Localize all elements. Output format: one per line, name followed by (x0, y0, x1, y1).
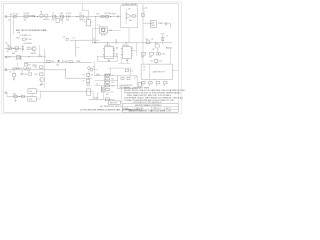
label gate (166, 36, 168, 38)
svg-text:LA1 6V: LA1 6V (43, 18, 49, 21)
wire q4 drop (156, 48, 158, 52)
resistor R13 (104, 13, 111, 18)
label IC2 pin nums (121, 48, 133, 56)
resistor R16 (162, 35, 164, 44)
wire k2 right b (36, 98, 40, 100)
label bottom note (100, 105, 122, 108)
svg-text:R7: R7 (28, 65, 30, 67)
resistor R1 (24, 13, 30, 18)
svg-text:K1: K1 (98, 25, 100, 27)
label 115VAC (28, 14, 36, 17)
svg-text:MOTOR: MOTOR (110, 103, 117, 105)
IC U4 pin 8 (131, 47, 133, 49)
transistor T3 bars (101, 87, 103, 92)
svg-text:DWG 12-4: DWG 12-4 (153, 108, 161, 110)
title block cell c (153, 108, 161, 110)
wire box stub (172, 70, 178, 72)
wire reg drop (128, 28, 130, 43)
svg-text:REV 2: REV 2 (166, 108, 171, 110)
svg-text:R8: R8 (28, 71, 30, 73)
wire long lower (5, 69, 66, 71)
svg-text:J5: J5 (156, 85, 158, 87)
resistor R18 (149, 52, 153, 58)
switch S1 (11, 14, 13, 17)
title block vdiv 2 (151, 107, 153, 112)
wire relay feed (93, 28, 100, 30)
resistor stack Rc (106, 81, 110, 83)
wire AC line top (7, 16, 121, 18)
wire IC2 out (133, 43, 137, 56)
diode D13 (134, 77, 137, 80)
svg-text:K2a: K2a (29, 91, 32, 93)
label box pins (143, 66, 145, 71)
wire relay drop (95, 29, 97, 43)
node n16 (125, 42, 126, 43)
border outer frame (1, 2, 181, 114)
svg-text:P1 10K: P1 10K (62, 61, 68, 63)
node n5 (110, 16, 111, 17)
node n9 (28, 56, 29, 57)
svg-text:C6: C6 (82, 75, 84, 77)
label D10 value (92, 39, 95, 41)
diode D12 (125, 69, 133, 72)
wire bl (7, 96, 28, 98)
IC U3 pin 4 (103, 51, 105, 53)
subcircuit box U2 regulator (121, 6, 137, 28)
title block cell d (166, 108, 171, 110)
wire rail tick (143, 11, 145, 13)
wire bus row2 (95, 80, 118, 82)
label P1 wiper (56, 64, 60, 66)
label wdg1 (17, 33, 20, 35)
resistor R19 (142, 81, 146, 87)
label wdg2 (20, 35, 31, 37)
wire drop s1 (17, 63, 19, 67)
node n1 (34, 16, 35, 17)
svg-text:REF: REF (12, 53, 15, 55)
wire drop left A (10, 17, 12, 49)
IC U4 pin 1 (131, 55, 133, 57)
svg-text:T1: T1 (52, 13, 54, 15)
label TO PIN3 (12, 68, 32, 70)
regulator U1 (86, 10, 91, 26)
rectifier D1 (66, 13, 71, 18)
label above titleblock (132, 101, 162, 104)
svg-text:220: 220 (16, 59, 19, 61)
svg-text:C5: C5 (73, 38, 75, 40)
wire IC2 vcc (125, 43, 127, 47)
title block frame (122, 103, 178, 112)
resistor R17 (141, 52, 145, 58)
capacitor C8 (33, 64, 37, 67)
node n6 (13, 48, 14, 49)
title block divider 1 (122, 106, 178, 108)
IC U4 pin 4 (121, 51, 123, 53)
IC U3 pin 3 (113, 50, 115, 52)
label R15 value (151, 39, 154, 41)
wire mid horizontal (70, 39, 99, 41)
wire lower aux (5, 56, 46, 58)
svg-text:D11: D11 (162, 54, 165, 56)
wire bc motor (113, 99, 115, 101)
svg-text:IC2 555: IC2 555 (123, 45, 129, 47)
lamp L1 (43, 14, 49, 21)
label C6 value (91, 75, 94, 77)
node n14 (95, 42, 96, 43)
title block divider 2 (122, 108, 178, 110)
note line 2 (124, 89, 186, 92)
label cluster c (96, 84, 98, 86)
wire y68 drop (109, 68, 111, 74)
label cluster a (96, 74, 99, 76)
resistor R29 (105, 98, 110, 101)
label +9V (128, 9, 132, 11)
svg-text:J6: J6 (163, 85, 165, 87)
note line 3 (124, 92, 182, 95)
wire k2 right a (36, 90, 40, 92)
label SEE TEXT FOR DETAILS (16, 29, 47, 32)
relay K2 contact b (28, 97, 36, 101)
IC U3 pin 5 (113, 52, 115, 54)
wire bus vertical (104, 74, 106, 92)
svg-text:D10: D10 (92, 39, 95, 41)
label below R1 (24, 19, 27, 22)
svg-text:R2 10K: R2 10K (26, 39, 33, 41)
svg-text:ALL RESISTORS 1/4W 5%: ALL RESISTORS 1/4W 5% (100, 105, 122, 108)
diode D7 (141, 14, 144, 17)
transformer T1 secondary (60, 13, 64, 18)
wire drop n13 (65, 70, 67, 78)
ground GND1 (20, 57, 22, 61)
svg-text:8 TURNS #24: 8 TURNS #24 (20, 35, 31, 37)
wire bus row1 (95, 75, 118, 77)
note line 4 (127, 94, 172, 97)
svg-text:OUT+: OUT+ (158, 23, 164, 25)
wire IC1 vcc (107, 42, 108, 46)
wire drop n4 (95, 17, 97, 29)
note line 6 (124, 99, 175, 102)
fuse F1 (13, 12, 18, 17)
transistor Q4 (155, 43, 159, 48)
transistor Q1 (32, 47, 36, 51)
wire bc left box (87, 89, 91, 95)
connector left col (139, 82, 141, 86)
capacitor C11 (115, 40, 117, 43)
resistor stack Rb (106, 78, 110, 80)
node n12 (25, 69, 26, 70)
svg-text:C7: C7 (82, 81, 84, 83)
svg-text:2N3904: 2N3904 (30, 53, 36, 55)
wire bus row3 (95, 85, 118, 87)
ground GND2 (13, 76, 15, 80)
node plus mark (43, 30, 45, 32)
node n10 (58, 60, 60, 62)
resistor R3 (7, 45, 11, 50)
IC U4 pin 5 (131, 52, 133, 54)
resistor stack Rd (106, 85, 110, 87)
label below D1 (66, 20, 69, 22)
wire relay to box (107, 29, 120, 31)
node J1 AC input + (5, 16, 7, 18)
resistor R23 (156, 81, 160, 87)
svg-text:C9: C9 (9, 72, 11, 74)
box output stage (97, 56, 117, 61)
label 6V REGULATED SUPPLY (122, 4, 138, 6)
node n13 (65, 69, 66, 70)
label ADJ (129, 19, 132, 22)
sensor circle (88, 67, 91, 71)
wire bc bottom link (101, 91, 114, 93)
subcircuit motor box (141, 64, 172, 79)
svg-text:R17: R17 (141, 56, 144, 58)
svg-text:IN: IN (84, 21, 86, 23)
diode D10 (93, 41, 95, 43)
label R3 value (7, 51, 10, 53)
IC U4 pin 6 (121, 54, 123, 56)
wire k2 link (31, 93, 33, 97)
transistor Q2 lower (87, 83, 90, 86)
label Q1 type (30, 53, 36, 55)
svg-text:R9: R9 (35, 67, 37, 69)
svg-text:ADJ: ADJ (129, 19, 132, 22)
svg-text:R12: R12 (96, 14, 99, 16)
IC U3 555 timer (105, 45, 114, 59)
capacitor C12 (116, 48, 118, 49)
label R4 value (15, 51, 19, 53)
svg-text:12 VDC MOTOR SPEED CONTROLLER: 12 VDC MOTOR SPEED CONTROLLER - SCHEMATI… (80, 109, 143, 112)
label C9 value (9, 72, 11, 74)
wire right rail (142, 23, 144, 64)
label R12 (96, 14, 99, 16)
svg-text:S1: S1 (8, 20, 10, 22)
svg-text:R10: R10 (35, 74, 38, 76)
LED D11 (156, 52, 161, 55)
svg-text:SEE TEXT FOR WINDING DATA: SEE TEXT FOR WINDING DATA (16, 29, 47, 32)
wire vcc rail (92, 42, 172, 44)
label stack 4 (111, 86, 114, 88)
IC U4 pin 2 (121, 48, 123, 50)
LED D5 (100, 15, 104, 17)
label motor box (152, 70, 165, 73)
svg-text:TIP: TIP (152, 49, 154, 51)
wire y75 link (95, 74, 101, 76)
wire +V rail right (142, 5, 144, 24)
wire y68 link (109, 67, 132, 69)
node n18 (19, 96, 20, 97)
wire drop x94 (94, 61, 96, 75)
wire right column (44, 63, 46, 89)
label R6 value (16, 59, 19, 61)
resistor R20 (47, 60, 54, 63)
label C5 (73, 38, 75, 40)
border inner frame (4, 3, 179, 112)
wire ic1 drop (120, 59, 122, 64)
capacitor C3 (166, 22, 167, 25)
wire aux line (5, 47, 21, 49)
connector CN1 (150, 21, 156, 28)
resistor R26 (21, 95, 24, 98)
svg-text:BR1: BR1 (66, 20, 69, 22)
label Q4 type (152, 49, 154, 51)
node n7 (9, 56, 10, 57)
svg-text:TRIM: TRIM (76, 61, 81, 63)
note line 5 (124, 97, 184, 100)
resistor R21 (69, 61, 72, 63)
label relay coil (109, 30, 113, 32)
schematic title (80, 109, 143, 112)
svg-text:K2b: K2b (29, 99, 32, 101)
node n8 (20, 56, 21, 57)
label D6 (143, 8, 147, 10)
IC U4 555 timer (123, 45, 132, 59)
svg-text:U1: U1 (86, 18, 88, 20)
svg-text:R3: R3 (7, 45, 9, 47)
IC U3 pin 1 (113, 55, 115, 57)
IC U3 pin 6 (103, 54, 105, 56)
label trim (76, 61, 81, 63)
label below C1 (80, 20, 85, 22)
label 10K pot (62, 61, 68, 63)
transistor Q3 (40, 78, 44, 82)
resistor R6 (17, 56, 20, 59)
capacitor C9 (12, 70, 15, 76)
wire drop xfmr2 (61, 17, 63, 24)
resistor R5 (27, 47, 30, 49)
svg-text:R15: R15 (145, 39, 148, 41)
big box pwm (118, 76, 138, 89)
node n15 (116, 42, 117, 43)
label cluster b (105, 74, 111, 76)
wire drop mid (44, 49, 46, 63)
label D11 (162, 54, 165, 56)
capacitor C14 (155, 59, 162, 62)
resistor R22 (149, 81, 153, 87)
node n17 (155, 42, 156, 43)
IC U4 pin 3 (131, 50, 133, 52)
wire drop left B (12, 17, 14, 35)
wire mid vertical (75, 40, 77, 56)
wire k2 vert (39, 91, 41, 99)
resistor R7 (24, 63, 30, 66)
capacitor C10 (21, 70, 28, 76)
label C14 value (150, 60, 153, 62)
wire to output (143, 22, 152, 24)
svg-text:C1: C1 (79, 13, 81, 15)
resistor R33 (121, 77, 124, 79)
resistor R25 (13, 93, 17, 97)
svg-text:4 AMP MOTOR: 4 AMP MOTOR (152, 70, 165, 73)
wire drop q3 (41, 82, 43, 85)
motor box divider (149, 64, 151, 79)
ground GND4 (126, 59, 128, 61)
wire bc drop3 (103, 92, 105, 99)
title block name (135, 105, 162, 107)
wire bc drop2 (97, 92, 99, 99)
meter M1 (40, 12, 43, 18)
svg-text:10K: 10K (111, 86, 114, 88)
svg-text:C14: C14 (159, 60, 162, 62)
op-amp U2 (126, 13, 131, 18)
wire long bottom (40, 90, 92, 92)
wire mid lower (24, 62, 92, 64)
resistor R8 (29, 73, 32, 75)
wire reg internal rail (125, 8, 127, 24)
relay K2 contact a (28, 89, 36, 93)
wire mid bottom (66, 77, 93, 79)
label pwm box b (120, 87, 130, 89)
svg-text:R18: R18 (149, 56, 152, 58)
wire y63 link (119, 62, 131, 64)
resistor R24 (163, 81, 167, 87)
svg-text:R31 R32: R31 R32 (105, 74, 111, 76)
title block cell b (136, 108, 144, 110)
wire top feed (82, 4, 88, 11)
resistor R35 (95, 97, 97, 99)
svg-text:BUZ11: BUZ11 (166, 48, 172, 50)
wire j8 stub (93, 66, 98, 69)
resistor R14 (133, 15, 136, 18)
label below S1 (8, 20, 10, 22)
label wdg3 (16, 37, 20, 39)
resistor R4 (15, 47, 18, 50)
capacitor C4 (63, 37, 68, 41)
wire c14 drop (155, 62, 157, 64)
node n11 (13, 69, 14, 70)
svg-text:D1-D4: D1-D4 (66, 13, 71, 15)
label stack 3 (111, 82, 114, 84)
svg-text:R20: R20 (51, 61, 54, 63)
relay K1 (98, 25, 108, 36)
transformer T1 primary (52, 13, 56, 18)
label below T1 sec (60, 20, 64, 22)
wire r15 (150, 42, 156, 44)
label MOSFET (166, 48, 172, 50)
title block bottom (128, 110, 171, 113)
capacitor C13 (116, 54, 118, 58)
title block cell a (123, 107, 129, 110)
svg-text:K1 RLY: K1 RLY (101, 34, 108, 36)
svg-text:D8 1N4007: D8 1N4007 (24, 43, 33, 45)
wire bl up (6, 93, 8, 97)
label IC1 pin nums (103, 48, 115, 56)
svg-text:D6: D6 (145, 8, 147, 10)
resistor R9 (35, 66, 43, 69)
wire relay drop2 (92, 29, 94, 39)
svg-text:COPYRIGHT BY TONY VAN ROON: COPYRIGHT BY TONY VAN ROON (132, 101, 162, 104)
resistor stack Re (106, 88, 110, 90)
svg-text:PWM DRIVER BD: PWM DRIVER BD (120, 85, 134, 87)
wire Q1 collector (39, 45, 41, 57)
note line 1 (124, 87, 150, 90)
wire drop right mid (87, 70, 89, 79)
resistor R10 (35, 73, 43, 76)
label bc bottom (106, 94, 109, 96)
label aux2 (12, 53, 15, 55)
label pwm box a (120, 85, 134, 87)
svg-text:M1: M1 (40, 12, 42, 14)
resistor stack Ra (106, 74, 110, 76)
svg-text:C14: C14 (150, 60, 153, 62)
ground GND5 (14, 98, 16, 101)
wire bc drop1 (92, 91, 94, 99)
svg-text:2K2: 2K2 (111, 79, 114, 81)
svg-text:C10: C10 (24, 74, 27, 76)
svg-text:C4: C4 (63, 37, 65, 39)
wire mid tick (76, 46, 80, 48)
node n3 (76, 16, 77, 17)
IC U3 pin 2 (103, 48, 105, 50)
resistor R15 (145, 39, 150, 44)
